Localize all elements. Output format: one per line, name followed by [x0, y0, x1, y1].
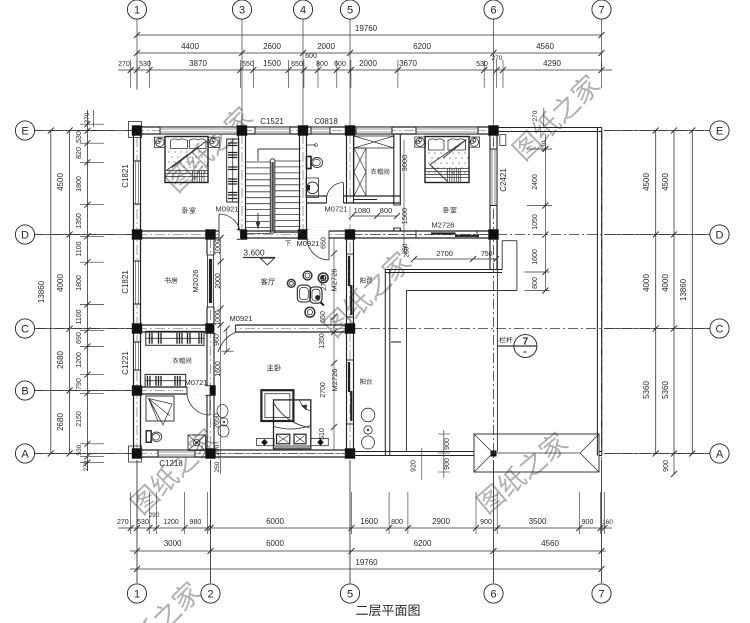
- plant nightstand left: [154, 137, 165, 147]
- svg-text:1000: 1000: [215, 310, 222, 326]
- svg-text:4500: 4500: [56, 173, 65, 191]
- porch roof (hip): [474, 434, 599, 472]
- right dim col1: [655, 131, 657, 454]
- living room chair ring left: [297, 285, 310, 302]
- left top mini dim 270: [93, 110, 95, 127]
- svg-text:4500: 4500: [661, 173, 670, 191]
- dresser ellipses master left: [217, 405, 228, 418]
- door M0921 bedroom1: [219, 214, 241, 236]
- living room plant blob bottom: [305, 307, 315, 317]
- window C1218: [158, 449, 195, 457]
- door opening M0721 bath: [327, 195, 344, 204]
- axis grid line 1: [136, 19, 138, 90]
- closet X-box top: [354, 136, 394, 148]
- master bed: [274, 400, 311, 449]
- axis circle 1 bottom: [127, 584, 146, 603]
- svg-text:6000: 6000: [266, 517, 284, 526]
- interior dims x325-330: [333, 238, 335, 450]
- watermark 图纸之家 top-left: [163, 103, 256, 194]
- svg-text:C2421: C2421: [499, 168, 508, 192]
- nightstand left bedroom2: [415, 137, 426, 147]
- column at (210,454): [205, 448, 215, 458]
- svg-text:1200: 1200: [163, 519, 179, 526]
- svg-text:4: 4: [300, 5, 306, 17]
- column at (210,328): [205, 323, 215, 333]
- door opening M0921 master: [214, 324, 235, 333]
- railing A row bottom: [352, 451, 475, 453]
- door opening M0921 bedroom1: [219, 230, 241, 239]
- svg-text:550: 550: [242, 61, 254, 68]
- axis circle 5 bottom: [340, 584, 359, 603]
- door opening M2026 study sliding: [206, 255, 215, 307]
- svg-text:2900: 2900: [432, 517, 450, 526]
- axis dash inside walls: [136, 137, 138, 450]
- pier outline top-left corner: [129, 122, 142, 138]
- svg-text:C1521: C1521: [260, 117, 284, 126]
- svg-text:D: D: [716, 230, 724, 242]
- window C1821 upper: [133, 161, 141, 204]
- svg-text:2: 2: [207, 589, 213, 601]
- column at (350,454): [345, 448, 355, 458]
- label study 书房: [164, 277, 177, 283]
- svg-text:5: 5: [347, 589, 353, 601]
- shower head bath top: [307, 144, 316, 146]
- svg-text:C1821: C1821: [121, 164, 130, 188]
- svg-text:M0921: M0921: [216, 205, 239, 214]
- svg-text:4500: 4500: [642, 173, 651, 191]
- wall axis4 stair east: [299, 134, 301, 231]
- label closet 衣帽间: [370, 169, 389, 175]
- window C1821 lower: [133, 261, 141, 304]
- axis circle 6 top: [484, 0, 503, 19]
- svg-text:2600: 2600: [263, 42, 281, 51]
- wall E row (north): [134, 126, 498, 128]
- axis circle 3 top: [232, 0, 251, 19]
- dim column 2400/1050/1600/800 right of bedroom2: [544, 134, 546, 291]
- door M0721 bath: [327, 183, 344, 200]
- svg-text:13860: 13860: [679, 278, 688, 301]
- plant nightstand right: [208, 137, 219, 147]
- svg-text:530: 530: [76, 131, 83, 143]
- bed bedroom1: [165, 137, 208, 183]
- svg-text:M2026: M2026: [191, 270, 200, 293]
- left leader lines to circles: [34, 130, 133, 132]
- svg-text:650: 650: [320, 311, 327, 323]
- svg-text:5360: 5360: [661, 381, 670, 399]
- column at (137,390): [132, 385, 142, 395]
- column at (350,234): [345, 229, 355, 239]
- svg-text:19760: 19760: [355, 24, 378, 33]
- stair center handrail: [269, 160, 271, 233]
- basin bathroom top: [306, 178, 319, 198]
- svg-text:1600: 1600: [532, 249, 539, 265]
- svg-text:E: E: [716, 126, 723, 138]
- cloakroom closet top (rail with hangers): [146, 331, 204, 345]
- svg-text:2680: 2680: [56, 351, 65, 369]
- stair right flight treads: [275, 160, 301, 162]
- closet X-box left: [354, 148, 366, 196]
- axis grid line B: [34, 390, 133, 392]
- stair upper landing line: [258, 148, 301, 150]
- svg-text:270: 270: [118, 61, 130, 68]
- svg-text:2150: 2150: [76, 411, 83, 427]
- svg-text:13860: 13860: [37, 280, 46, 303]
- right dim col3 total 13860: [691, 131, 693, 454]
- axis circle 2 bottom: [201, 584, 220, 603]
- column at (137,454): [132, 448, 142, 458]
- svg-text:2700: 2700: [320, 382, 327, 398]
- svg-text:1800: 1800: [76, 275, 83, 291]
- column at (137,130): [132, 125, 142, 135]
- toilet bathroom top: [307, 157, 312, 169]
- dims 1080/800 closet: [352, 215, 397, 217]
- column at (303,130): [298, 125, 308, 135]
- balcony parapet east (x387): [384, 270, 386, 456]
- svg-text:1050: 1050: [532, 214, 539, 230]
- svg-text:3500: 3500: [529, 517, 547, 526]
- door M0921 master (arc): [218, 333, 235, 353]
- wall A row: [134, 449, 352, 451]
- axis grid line 5: [349, 19, 351, 126]
- master nightstand right: [311, 438, 329, 445]
- axis circle 6 bottom: [484, 584, 503, 603]
- svg-text:250: 250: [214, 461, 221, 472]
- axis grid line 4: [302, 19, 304, 126]
- axis circle C left: [15, 319, 34, 338]
- svg-text:5360: 5360: [642, 381, 651, 399]
- railing E row right (top): [498, 127, 602, 129]
- svg-text:1: 1: [134, 5, 140, 17]
- top dim extension lines: [130, 60, 132, 88]
- svg-text:270: 270: [532, 110, 539, 121]
- svg-text:2000: 2000: [215, 273, 222, 289]
- top dimension line row2: [137, 52, 602, 54]
- svg-text:1350: 1350: [319, 333, 326, 349]
- pier outline bottom-left corner: [129, 446, 142, 462]
- window bedroom1 north: [160, 126, 237, 134]
- svg-text:690: 690: [76, 332, 83, 344]
- dims 3000/1500/250 bedroom2 left: [403, 140, 405, 252]
- folding rack bottom-left room: [146, 396, 174, 421]
- svg-text:M2726: M2726: [330, 369, 339, 392]
- nightstand right bedroom2: [469, 137, 480, 147]
- svg-text:3000: 3000: [400, 155, 409, 172]
- axis circle 5 top: [340, 0, 359, 19]
- column at (350,130): [345, 125, 355, 135]
- axis grid line D inside wall: [352, 234, 490, 236]
- left dim line col3: [86, 110, 88, 470]
- svg-text:650: 650: [321, 237, 328, 249]
- svg-text:510: 510: [319, 428, 326, 440]
- wall B row: [134, 386, 213, 388]
- master nightstand left: [257, 438, 275, 445]
- svg-text:7: 7: [523, 337, 529, 348]
- short mark on terrace: [391, 341, 401, 343]
- column at (210,390): [205, 385, 215, 395]
- balcony plant pots: [361, 408, 375, 422]
- svg-text:A: A: [716, 449, 724, 461]
- window bedroom2 north: [416, 126, 478, 134]
- svg-text:3000: 3000: [164, 539, 182, 548]
- svg-text:19760: 19760: [355, 558, 378, 567]
- svg-text:530: 530: [137, 519, 149, 526]
- door opening M0921 corridor: [307, 230, 329, 239]
- column at (350,328): [345, 323, 355, 333]
- svg-text:530: 530: [541, 140, 548, 151]
- svg-text:800: 800: [391, 519, 403, 526]
- stair left flight treads: [246, 161, 271, 163]
- label down: [285, 241, 291, 246]
- wall axis2 study/bath east: [206, 238, 208, 325]
- axis circle A left: [15, 444, 34, 463]
- axis grid line D: [34, 234, 133, 236]
- axis grid line 3: [241, 19, 243, 126]
- wall D row: [134, 230, 498, 232]
- interior dims x220: [220, 238, 222, 474]
- label balcony2 阳台: [360, 379, 372, 385]
- caption 二层平面图: [356, 605, 419, 617]
- svg-text:7: 7: [598, 5, 604, 17]
- axis circle A right: [710, 444, 729, 463]
- axis circle 7 bottom: [592, 584, 611, 603]
- svg-text:820: 820: [76, 147, 83, 159]
- axis circle D left: [15, 225, 34, 244]
- right dim 900 below A: [673, 454, 675, 475]
- left dim line col2: [69, 131, 71, 454]
- watermark 图纸之家 center: [321, 248, 414, 339]
- svg-text:4560: 4560: [536, 42, 554, 51]
- label bedroom2 卧室: [444, 207, 457, 213]
- svg-text:6000: 6000: [266, 539, 284, 548]
- svg-text:5: 5: [347, 5, 353, 17]
- sliding door M2726 master-balcony: [346, 360, 348, 424]
- svg-text:900: 900: [444, 438, 451, 450]
- axis circle C right: [710, 319, 729, 338]
- window C1521: [255, 126, 290, 134]
- column at (242,130): [237, 125, 247, 135]
- wall corridor south y200: [307, 195, 401, 197]
- axis grid line C: [36, 328, 133, 330]
- svg-text:C1821: C1821: [121, 270, 130, 294]
- svg-text:270: 270: [83, 460, 90, 471]
- svg-text:160: 160: [602, 519, 613, 526]
- svg-text:4560: 4560: [541, 539, 559, 548]
- column at (242,234): [237, 229, 247, 239]
- label living 客厅: [261, 278, 275, 285]
- axis circle 1 top: [127, 0, 146, 19]
- label cloakroom 衣帽间: [172, 358, 191, 364]
- axis circle B left: [15, 381, 34, 400]
- living room plant blob top: [303, 271, 312, 280]
- svg-text:900: 900: [582, 519, 594, 526]
- svg-text:E: E: [21, 126, 28, 138]
- svg-text:1350: 1350: [76, 213, 83, 229]
- svg-text:270: 270: [492, 55, 503, 62]
- svg-text:C1218: C1218: [159, 459, 183, 468]
- bottom dimension row1: [118, 527, 612, 529]
- svg-text:2400: 2400: [532, 174, 539, 190]
- axis grid line 2: [210, 460, 212, 583]
- living room plant blob right: [318, 273, 328, 283]
- svg-text:2000: 2000: [359, 59, 377, 68]
- svg-text:900: 900: [663, 460, 670, 472]
- svg-text:M0721: M0721: [325, 205, 348, 214]
- svg-text:1800: 1800: [76, 176, 83, 192]
- column node railing A/6: [491, 451, 497, 457]
- svg-text:4000: 4000: [642, 274, 651, 292]
- svg-text:M2726: M2726: [432, 221, 455, 230]
- svg-text:4400: 4400: [181, 42, 199, 51]
- svg-text:2700: 2700: [436, 249, 453, 258]
- svg-text:4290: 4290: [543, 59, 561, 68]
- sliding door M2026 study: [207, 255, 209, 307]
- watermark 图纸之家 top-right: [510, 71, 603, 162]
- left dim line total 13860: [50, 131, 52, 454]
- svg-text:1500: 1500: [400, 208, 409, 225]
- svg-text:250: 250: [402, 243, 409, 254]
- top dimension line total 19760: [137, 34, 602, 36]
- svg-text:2000: 2000: [317, 42, 335, 51]
- wall axis5 bath east / living east: [346, 134, 348, 203]
- axis circle 4 top: [293, 0, 312, 19]
- master bed pillows: [277, 434, 290, 444]
- door opening M0721 cloak: [187, 386, 210, 395]
- svg-text:C: C: [716, 324, 724, 336]
- top dimension line row3: [118, 69, 612, 71]
- axis circle 7 top: [592, 0, 611, 19]
- svg-text:B: B: [21, 386, 28, 398]
- axis circle D right: [710, 225, 729, 244]
- svg-text:960: 960: [214, 334, 221, 346]
- wall axis6 below D to parapet: [489, 238, 491, 270]
- svg-text:800: 800: [380, 206, 393, 215]
- svg-text:3.600: 3.600: [243, 248, 265, 258]
- bed bedroom2: [425, 137, 469, 183]
- stair down arrow: [257, 213, 259, 227]
- svg-text:530: 530: [476, 61, 488, 68]
- dim 270/530 E right corner: [543, 108, 545, 127]
- svg-text:M0721: M0721: [185, 378, 208, 387]
- svg-text:6: 6: [490, 5, 496, 17]
- svg-text:600: 600: [305, 53, 317, 60]
- svg-text:270: 270: [117, 519, 129, 526]
- svg-text:4000: 4000: [661, 274, 670, 292]
- axis grid line 7: [601, 19, 603, 70]
- axis grid line A: [34, 453, 133, 455]
- svg-text:2700: 2700: [321, 275, 328, 291]
- bottom dimension row2: [130, 550, 606, 552]
- dim 2700/750 bedroom2 balcony: [414, 258, 496, 260]
- column at (494,130): [488, 125, 498, 135]
- cloakroom closet bottom (rail with hangers): [145, 374, 186, 387]
- svg-text:1600: 1600: [360, 517, 378, 526]
- svg-text:900: 900: [444, 458, 451, 470]
- axis grid line E: [34, 130, 133, 132]
- window C1221: [133, 342, 141, 370]
- svg-text:6: 6: [490, 589, 496, 601]
- axis circle E right: [710, 121, 729, 140]
- svg-text:C: C: [21, 324, 29, 336]
- master bed rug square: [261, 390, 293, 421]
- window closet north: [356, 126, 392, 134]
- svg-text:1100: 1100: [76, 241, 83, 256]
- svg-text:C0818: C0818: [314, 117, 338, 126]
- svg-text:3670: 3670: [399, 59, 417, 68]
- terrace mid vertical line: [496, 240, 498, 452]
- bedroom-balcony parapet south (y271): [385, 269, 502, 271]
- window C0818: [311, 126, 330, 134]
- svg-text:790: 790: [76, 378, 83, 390]
- shower bottom-left: [188, 435, 206, 451]
- svg-text:3870: 3870: [189, 59, 207, 68]
- watermark 图纸之家 bottom-left: [128, 425, 221, 516]
- svg-text:920: 920: [411, 460, 418, 472]
- watermark 图纸之家 bottom-edge partial: [111, 578, 204, 623]
- column at (137,328): [132, 323, 142, 333]
- door opening bedroom2 entry: [393, 205, 402, 228]
- closet shelf bottom: [354, 195, 377, 197]
- pier bump below railing: [500, 135, 506, 146]
- svg-text:1000: 1000: [215, 239, 222, 255]
- wall C row: [134, 324, 352, 326]
- door M0921 corridor: [307, 238, 329, 260]
- right leader lines: [604, 130, 710, 132]
- svg-text:1200: 1200: [76, 352, 83, 368]
- sliding door M2726 bedroom2 south: [416, 230, 477, 232]
- axis grid line 6: [493, 19, 495, 126]
- svg-text:270: 270: [84, 112, 91, 123]
- right dim col2: [673, 131, 675, 454]
- wall axis1 (west): [133, 127, 135, 457]
- master bed foot board: [275, 445, 311, 449]
- svg-text:900: 900: [480, 519, 492, 526]
- balloon detail 7 栏杆: [514, 335, 537, 358]
- bottom dimension row3 total: [130, 568, 602, 570]
- terrace step rectangle: [502, 240, 517, 242]
- svg-text:3: 3: [239, 5, 245, 17]
- watermark 图纸之家 bottom-right: [474, 429, 570, 516]
- sliding door M2726 living-balcony: [346, 254, 348, 317]
- svg-text:1: 1: [134, 589, 140, 601]
- living room plant blob left: [287, 279, 295, 287]
- svg-text:C1221: C1221: [121, 351, 130, 375]
- railing axis7 right side: [596, 128, 598, 456]
- wall axis3 stair west: [238, 134, 240, 231]
- label bedroom1 卧室: [183, 207, 196, 213]
- svg-text:6200: 6200: [414, 539, 432, 548]
- svg-text:2680: 2680: [56, 413, 65, 431]
- door M0721 cloak-bed: [187, 392, 210, 415]
- column at (137,234): [132, 229, 142, 239]
- column at (494,234): [488, 229, 498, 239]
- svg-text:6200: 6200: [413, 42, 431, 51]
- svg-text:290: 290: [149, 512, 160, 519]
- axis circle E left: [15, 121, 34, 140]
- column at (303,234): [298, 229, 308, 239]
- svg-text:A: A: [21, 449, 29, 461]
- svg-text:1100: 1100: [76, 309, 83, 324]
- window C2421: [489, 149, 497, 206]
- svg-text:600: 600: [334, 61, 346, 68]
- label balcony1 阳台: [360, 278, 372, 284]
- svg-text:M0921: M0921: [230, 314, 253, 323]
- svg-text:530: 530: [139, 61, 151, 68]
- toilet bottom-left: [146, 431, 151, 443]
- svg-text:D: D: [21, 230, 29, 242]
- wardrobe bedroom1 (rail with hangers): [227, 139, 239, 202]
- terrace roof edge: [407, 290, 517, 292]
- svg-text:1600: 1600: [215, 361, 222, 377]
